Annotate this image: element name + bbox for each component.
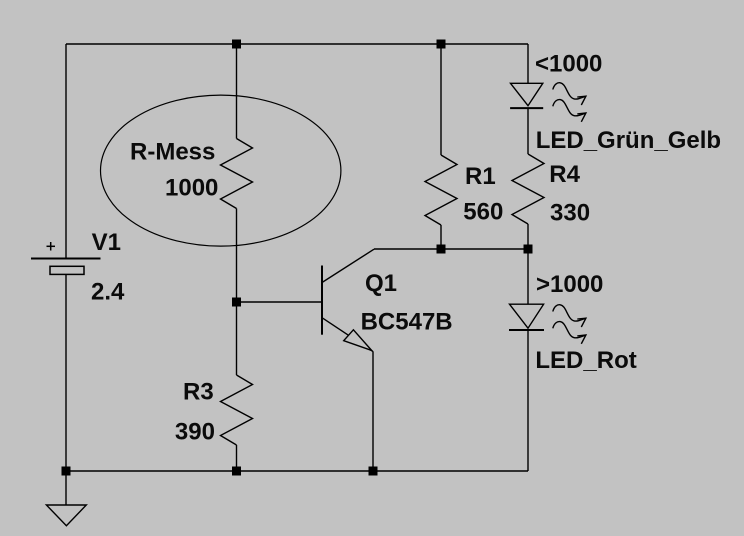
wire collector rail <box>374 248 528 250</box>
svg-text:BC547B: BC547B <box>361 309 453 336</box>
svg-text:Q1: Q1 <box>365 270 397 297</box>
wire LED D2 bottom lead <box>527 330 529 471</box>
svg-text:560: 560 <box>463 198 503 225</box>
wire LED D2 top lead <box>527 249 529 304</box>
wire base <box>237 301 323 303</box>
svg-text:R1: R1 <box>465 163 496 190</box>
node R3 bottom junction <box>232 467 241 476</box>
svg-text:R4: R4 <box>549 161 580 188</box>
node base junction <box>232 298 241 307</box>
resistor R4 <box>512 154 544 224</box>
node emitter junction <box>369 467 378 476</box>
wire ground lead <box>65 471 67 505</box>
svg-text:>1000: >1000 <box>536 271 603 298</box>
voltage source V1 <box>31 242 101 274</box>
svg-text:LED_Rot: LED_Rot <box>535 347 636 374</box>
svg-text:1000: 1000 <box>165 174 218 201</box>
annotation ellipse around R-Mess <box>101 95 341 246</box>
wire top rail <box>66 43 528 45</box>
wire left rail (battery top lead) <box>65 44 67 259</box>
wire R3 bottom lead <box>236 445 238 471</box>
resistor R-Mess <box>221 139 253 209</box>
wire bottom rail <box>66 470 528 472</box>
wire emitter lead <box>372 352 374 471</box>
node collector R4 junction <box>524 245 533 254</box>
svg-text:2.4: 2.4 <box>91 279 125 306</box>
wire R1 bottom lead <box>440 225 442 249</box>
wire R-Mess bottom lead <box>236 209 238 303</box>
transistor Q1 <box>322 249 374 351</box>
LED D2 LED_Rot <box>509 304 586 344</box>
svg-text:<1000: <1000 <box>535 51 602 78</box>
wire R-Mess top lead <box>236 44 238 139</box>
svg-text:LED_Grün_Gelb: LED_Grün_Gelb <box>536 127 721 154</box>
svg-text:V1: V1 <box>92 229 121 256</box>
LED D1 LED_Gruen_Gelb <box>510 83 586 122</box>
wire R4 bottom lead <box>527 224 529 249</box>
svg-text:330: 330 <box>550 200 590 227</box>
resistor R1 <box>425 155 457 225</box>
node collector R1 junction <box>437 245 446 254</box>
wire LED D1 top lead <box>527 44 529 83</box>
svg-text:R3: R3 <box>183 378 214 405</box>
svg-text:R-Mess: R-Mess <box>130 139 215 166</box>
wire R3 top lead <box>236 302 238 375</box>
node top R1 junction <box>437 40 446 49</box>
node ground junction <box>62 467 71 476</box>
resistor R3 <box>221 375 253 445</box>
ground <box>46 505 86 526</box>
wire battery bottom lead <box>65 274 67 471</box>
node top R-Mess junction <box>232 40 241 49</box>
wire LED D1 to R4 <box>527 108 529 154</box>
wire R1 top lead <box>440 44 442 155</box>
svg-text:390: 390 <box>175 419 215 446</box>
